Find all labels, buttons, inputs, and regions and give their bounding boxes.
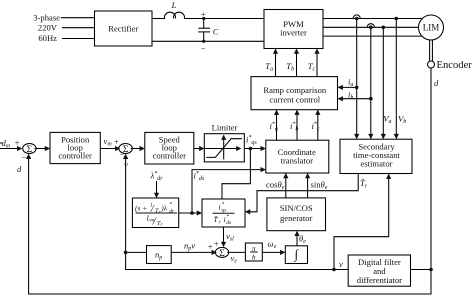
rectifier box [95, 11, 153, 46]
svg-text:Encoder: Encoder [437, 60, 473, 71]
wire dm dash [0, 142, 3, 144]
inductor L [165, 12, 176, 18]
svg-text:v: v [124, 160, 128, 170]
wire DC bus bottom [152, 40, 264, 42]
node ia sensor [355, 17, 359, 21]
svg-text:vsl: vsl [226, 231, 234, 243]
phase line c [323, 35, 422, 37]
svg-text:dm: dm [2, 138, 11, 150]
svg-text:C: C [213, 27, 219, 37]
wire iqs* branch down [222, 149, 250, 199]
pi/h fraction bar [250, 251, 258, 253]
SIN/COS generator box [267, 198, 326, 231]
wire junction1 to position box [35, 148, 50, 150]
svg-text:*: * [169, 202, 172, 208]
svg-text:T̂r: T̂r [360, 178, 368, 190]
svg-text:qs: qs [222, 208, 227, 214]
wire ib* up [296, 110, 298, 140]
svg-text:generator: generator [280, 213, 313, 223]
svg-text:controller: controller [58, 151, 92, 161]
wire ia vertical [356, 19, 358, 139]
wire ib to ramp box [338, 98, 370, 100]
limiter box [204, 134, 244, 162]
svg-text:controller: controller [153, 151, 187, 161]
node Va tap [382, 26, 386, 30]
wire d from encoder down right side [29, 68, 431, 294]
wire omega e to integrator [262, 251, 284, 253]
node v np branch [124, 251, 128, 255]
current sensor hump ia [353, 15, 360, 19]
svg-text:current control: current control [269, 94, 320, 104]
wire ia to ramp box [338, 86, 356, 88]
wire Va vertical [382, 27, 384, 138]
limiter horizontal axis [204, 148, 240, 150]
svg-text:differentiator: differentiator [357, 275, 402, 285]
svg-text:ve: ve [231, 253, 238, 265]
node v estimator branch [332, 268, 336, 272]
flux command block [132, 198, 178, 228]
PWM inverter box [264, 10, 323, 49]
wire Vb vertical [395, 19, 397, 139]
np box [147, 246, 172, 264]
wire d tap into digital filter [411, 269, 432, 271]
secondary time-constant estimator box [340, 139, 412, 173]
svg-text:np: np [155, 250, 162, 262]
node iqs branch [249, 147, 253, 151]
wire 3-phase input line 3 [62, 38, 95, 40]
svg-text:i*qs: i*qs [246, 135, 257, 147]
ramp comparison current control box [251, 77, 338, 110]
svg-text:Tb: Tb [286, 61, 294, 73]
wire division output vsl [223, 227, 225, 246]
wire ib vertical [370, 27, 372, 138]
svg-text:+: + [208, 242, 213, 252]
wire iqs* to coordinate translator [244, 148, 265, 150]
wire Tc [316, 49, 318, 76]
svg-text:Σ: Σ [27, 145, 33, 155]
node ib sensor [369, 26, 373, 30]
svg-text:Tc: Tc [308, 61, 316, 73]
svg-text:i*c: i*c [312, 121, 320, 133]
svg-text:220V: 220V [38, 23, 58, 33]
limiter vertical axis [223, 135, 225, 159]
wire speed box to limiter [194, 148, 204, 150]
svg-text:vm: vm [104, 136, 113, 148]
svg-text:d: d [434, 78, 439, 88]
svg-text:Tr: Tr [157, 220, 163, 228]
svg-text:ωe: ωe [268, 239, 277, 251]
node d filter tap [429, 268, 433, 272]
wire theta e up [296, 232, 298, 246]
encoder circle [428, 61, 435, 68]
svg-text:inverter: inverter [280, 28, 307, 38]
wire ids* branch up to translator [192, 170, 265, 213]
svg-text:Va: Va [383, 114, 391, 126]
wire junction2 to speed box [131, 148, 144, 150]
wire ia* up [276, 110, 278, 140]
svg-text:Ta: Ta [265, 61, 273, 73]
svg-text:SIN/COS: SIN/COS [280, 203, 313, 213]
wire DC bus top left segment [152, 18, 165, 20]
svg-text:∫: ∫ [294, 247, 300, 263]
svg-text:translator: translator [281, 156, 314, 166]
wire lambda dr* arrow [156, 181, 158, 197]
flux command block content [135, 202, 258, 262]
node ib ramp junction [369, 97, 373, 101]
svg-text:60Hz: 60Hz [38, 33, 57, 43]
wire v branch up to estimator [334, 174, 389, 269]
pi/h box [245, 243, 262, 261]
svg-text:Limiter: Limiter [212, 123, 238, 133]
svg-text:−: − [201, 44, 206, 54]
wire 3-phase input line 2 [62, 27, 95, 29]
wire sin theta up [307, 174, 309, 198]
svg-text:npv: npv [184, 241, 195, 253]
wire Tr hat to division block [246, 174, 358, 212]
svg-text:i*ds: i*ds [194, 171, 205, 183]
wire v output to left and up to junction 2 [126, 155, 349, 270]
flux block fraction bar [136, 212, 178, 214]
division fraction bar [213, 212, 235, 214]
wire cos theta up [285, 174, 287, 198]
svg-text:dr: dr [169, 209, 175, 215]
svg-text:estimator: estimator [361, 158, 393, 168]
node dm summing junction 1 [23, 144, 36, 154]
svg-text:)λ: )λ [160, 204, 167, 213]
svg-text:ds: ds [226, 220, 231, 226]
wire flux block to division block [179, 212, 202, 214]
svg-text:ib: ib [348, 90, 353, 102]
encoder shaft [429, 40, 431, 61]
wire Tb [296, 49, 298, 76]
integrator box [285, 246, 307, 264]
svg-text:Rectifier: Rectifier [108, 24, 138, 34]
svg-text:Σ: Σ [123, 145, 129, 155]
svg-text:3-phase: 3-phase [33, 13, 60, 23]
svg-text:sinθe: sinθe [311, 180, 328, 192]
svg-text:Vb: Vb [398, 114, 406, 126]
svg-text:LIM: LIM [423, 23, 440, 33]
wire DC bus top right segment [184, 18, 264, 20]
wire v branch to np box [126, 251, 147, 253]
digital filter box [348, 255, 410, 286]
svg-text:i: i [219, 203, 221, 212]
node summing junction 3 [215, 247, 228, 257]
wire dm input [0, 148, 22, 150]
LIM motor circle [419, 15, 444, 40]
node summing junction 2 [119, 144, 132, 154]
svg-text:+: + [15, 137, 20, 147]
division block iqs/(Tr ids) [202, 199, 245, 227]
svg-text:v: v [339, 259, 343, 269]
wire ic* up [317, 110, 319, 140]
speed loop controller box [145, 132, 194, 164]
wire vm [100, 148, 119, 150]
svg-text:+: + [114, 137, 119, 147]
node cap bottom [202, 40, 205, 43]
svg-text:L: L [171, 0, 177, 10]
node ids branch [190, 211, 194, 215]
capacitor C [203, 19, 205, 29]
svg-text:(s +: (s + [135, 204, 147, 213]
node Vb tap [395, 17, 399, 21]
svg-text:λ*dr: λ*dr [150, 171, 164, 183]
svg-text:Σ: Σ [219, 249, 225, 259]
svg-text:cosθe: cosθe [266, 180, 285, 192]
svg-text:+: + [201, 9, 206, 19]
svg-text:i: i [224, 215, 226, 224]
node cap top [202, 17, 205, 20]
svg-text:d: d [17, 164, 22, 174]
svg-text:Tr: Tr [155, 208, 161, 216]
svg-text:ia: ia [348, 77, 353, 89]
wire 3-phase input line 1 [61, 17, 95, 19]
svg-text:+: + [214, 238, 219, 248]
coordinate translator box [266, 140, 329, 173]
position loop controller box [50, 132, 100, 163]
wire Ta [275, 49, 277, 76]
wire junction 3 to pi/h box [227, 251, 245, 253]
phase line a [323, 18, 422, 20]
current sensor hump ib [367, 24, 374, 28]
phase line b [323, 26, 419, 28]
svg-text:r: r [219, 220, 222, 226]
svg-text:h: h [252, 253, 256, 262]
node ia ramp junction [355, 86, 359, 90]
wire np v to junction 3 [171, 251, 216, 253]
limiter saturation curve [206, 139, 242, 158]
svg-text:θe: θe [299, 234, 306, 246]
